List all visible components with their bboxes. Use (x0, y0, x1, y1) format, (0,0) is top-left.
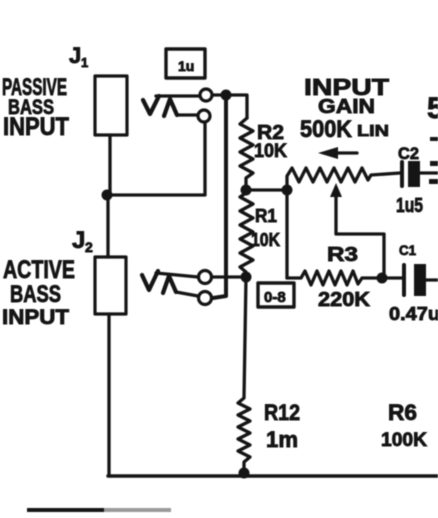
resistor R3 (287, 271, 404, 285)
wire box left side down to R3 (285, 190, 288, 278)
svg-text:INPUT: INPUT (2, 306, 69, 329)
wire J1 tip to R2 (212, 95, 247, 118)
wire ground rail (108, 474, 438, 477)
svg-text:ACTIVE: ACTIVE (3, 256, 75, 284)
contact circle J2 tip (199, 271, 212, 284)
capacitor C1 left plate (402, 265, 406, 295)
wire junction down to J2 (106, 195, 109, 257)
svg-text:C1: C1 (399, 242, 416, 258)
jack plug symbol J2 (142, 271, 158, 290)
node junction dot R2/R1 (241, 185, 252, 196)
box label 1u (166, 49, 205, 78)
wire C2 right (420, 171, 438, 174)
svg-text:100K: 100K (381, 430, 427, 451)
svg-text:1: 1 (81, 55, 88, 70)
potentiometer input gain (track) (287, 168, 400, 190)
resistor R2 (240, 118, 253, 190)
svg-text:1u5: 1u5 (396, 195, 423, 217)
node junction dot R3/C1/wiper (377, 273, 388, 284)
node junction dot J1 tip (221, 90, 232, 101)
svg-text:0-8: 0-8 (264, 289, 286, 306)
capacitor C2 left plate (400, 162, 404, 186)
resistor R12 (238, 277, 250, 473)
node junction dot R1/J2 tip/R12 (241, 272, 252, 283)
wire J1 tip node down to J2 switch contact (213, 97, 226, 298)
svg-text:500K: 500K (300, 116, 353, 143)
node junction dot J1/J2 column (102, 190, 113, 201)
wire J2 bottom to ground rail (107, 314, 110, 476)
wire node B right (246, 188, 287, 191)
svg-text:J: J (72, 227, 85, 254)
contact circle J1 switch (198, 110, 210, 122)
svg-text:BASS: BASS (10, 281, 61, 308)
svg-text:R3: R3 (327, 244, 358, 266)
svg-text:LIN: LIN (357, 123, 389, 140)
contact circle J2 switch (199, 292, 212, 305)
annotation arrow (gain direction) shaft (334, 151, 357, 154)
node junction dot pot left (282, 185, 293, 196)
svg-text:10K: 10K (251, 230, 280, 250)
connector J2 (active input jack body) (95, 257, 126, 314)
bottom dark bar (27, 508, 104, 512)
box label 0-8 (258, 283, 294, 307)
svg-text:220K: 220K (318, 289, 371, 311)
pot wiper arrowhead (330, 183, 342, 197)
svg-text:INPUT: INPUT (3, 113, 69, 141)
svg-text:C2: C2 (398, 144, 419, 163)
svg-text:R1: R1 (255, 206, 277, 226)
svg-text:R6: R6 (388, 400, 417, 425)
svg-text:J: J (69, 43, 81, 68)
wire C1 right (426, 278, 438, 281)
jack plug symbol J1 (143, 96, 159, 114)
contact circle J1 tip (200, 89, 212, 101)
resistor R1 (240, 190, 253, 277)
pot wiper arrow (336, 196, 384, 274)
node junction dot R12/ground (239, 468, 250, 479)
svg-text:10K: 10K (254, 141, 287, 162)
svg-text:2: 2 (85, 239, 93, 255)
wire J1 bottom to junction (108, 135, 111, 195)
svg-text:1u: 1u (178, 58, 194, 74)
partial marks right edge (430, 137, 438, 141)
svg-text:5: 5 (427, 92, 438, 125)
capacitor C2 right plate (408, 161, 420, 187)
connector J1 (passive input jack body) (95, 76, 127, 135)
capacitor C1 right plate (414, 264, 426, 296)
wire junction right then up to J1 switch contact (107, 122, 205, 195)
svg-text:1m: 1m (266, 427, 298, 452)
svg-text:R12: R12 (264, 400, 300, 425)
svg-text:GAIN: GAIN (318, 96, 375, 118)
svg-text:0.47u: 0.47u (389, 304, 438, 324)
annotation arrowhead (318, 147, 338, 159)
wire J2 tip to node (212, 275, 246, 278)
